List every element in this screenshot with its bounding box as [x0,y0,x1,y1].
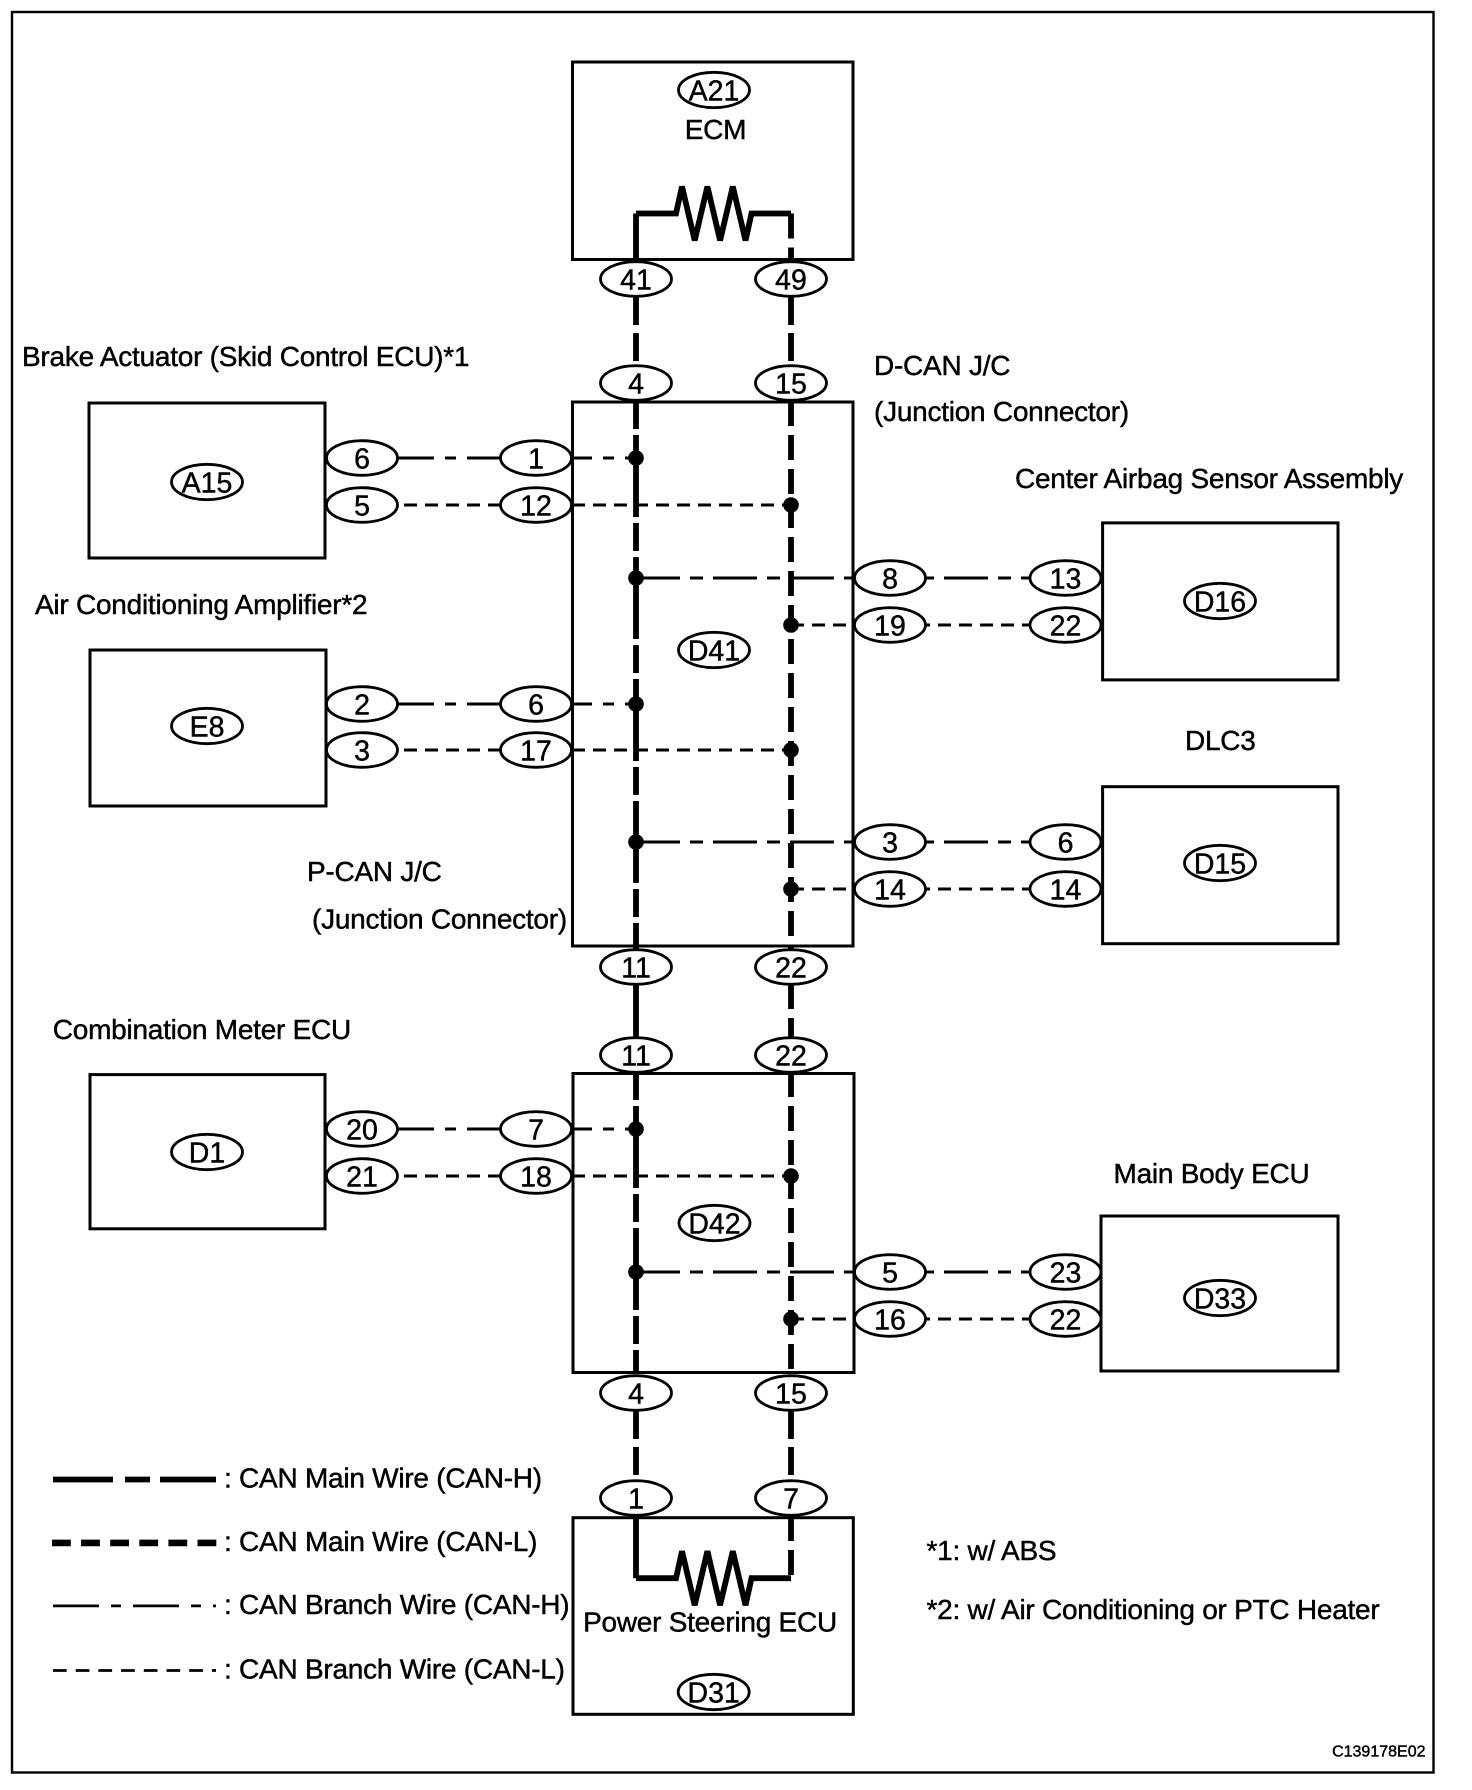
svg-text:1: 1 [528,444,544,476]
svg-text:A15: A15 [182,468,233,500]
svg-text:*2: w/ Air Conditioning or PTC: *2: w/ Air Conditioning or PTC Heater [927,1594,1380,1625]
svg-text:14: 14 [1050,875,1082,907]
svg-text:D42: D42 [688,1209,740,1241]
svg-text:16: 16 [874,1305,906,1337]
svg-text:18: 18 [520,1162,552,1194]
svg-text:23: 23 [1050,1258,1082,1290]
svg-text:12: 12 [520,491,552,523]
svg-text:4: 4 [628,1379,644,1411]
svg-text:Air Conditioning Amplifier*2: Air Conditioning Amplifier*2 [35,589,367,620]
svg-text:15: 15 [775,1379,807,1411]
svg-text:7: 7 [528,1115,544,1147]
svg-text:6: 6 [354,444,370,476]
svg-text:D1: D1 [189,1138,225,1170]
svg-text:22: 22 [1050,1305,1082,1337]
svg-text:: CAN Branch Wire (CAN-L): : CAN Branch Wire (CAN-L) [224,1654,565,1685]
svg-text:14: 14 [874,875,906,907]
svg-text:11: 11 [621,953,651,985]
svg-text:4: 4 [628,369,644,401]
svg-text:: CAN Branch Wire (CAN-H): : CAN Branch Wire (CAN-H) [224,1589,569,1620]
svg-text:Center Airbag Sensor Assembly: Center Airbag Sensor Assembly [1015,463,1403,494]
svg-text:A21: A21 [689,76,740,108]
svg-text:7: 7 [783,1484,799,1516]
svg-text:(Junction Connector): (Junction Connector) [874,396,1129,427]
svg-text:D41: D41 [688,636,740,668]
svg-text:2: 2 [354,690,370,722]
svg-text:E8: E8 [190,712,225,744]
svg-text:: CAN Main Wire (CAN-L): : CAN Main Wire (CAN-L) [224,1526,537,1557]
svg-text:Combination Meter ECU: Combination Meter ECU [53,1014,351,1045]
svg-text:22: 22 [1050,611,1082,643]
svg-text:5: 5 [882,1258,898,1290]
svg-text:22: 22 [775,1041,807,1073]
svg-text:D-CAN J/C: D-CAN J/C [874,350,1010,381]
svg-text:Power Steering ECU: Power Steering ECU [583,1607,837,1638]
svg-text:8: 8 [882,564,898,596]
svg-text:1: 1 [628,1484,644,1516]
svg-text:11: 11 [621,1041,651,1073]
svg-text:3: 3 [882,828,898,860]
svg-text:D15: D15 [1194,849,1246,881]
svg-text:22: 22 [775,953,807,985]
svg-text:Main Body ECU: Main Body ECU [1114,1158,1310,1189]
svg-text:Brake Actuator (Skid Control E: Brake Actuator (Skid Control ECU)*1 [22,341,469,372]
svg-text:49: 49 [775,265,807,297]
svg-text:21: 21 [346,1162,378,1194]
svg-text:41: 41 [620,265,652,297]
svg-text:D16: D16 [1194,587,1246,619]
svg-text:6: 6 [528,690,544,722]
svg-text:: CAN Main Wire (CAN-H): : CAN Main Wire (CAN-H) [224,1463,542,1494]
svg-text:3: 3 [354,736,370,768]
svg-text:(Junction Connector): (Junction Connector) [312,904,567,935]
svg-text:13: 13 [1050,564,1082,596]
svg-text:15: 15 [775,369,807,401]
svg-text:5: 5 [354,491,370,523]
svg-text:DLC3: DLC3 [1185,725,1256,756]
svg-text:D31: D31 [688,1678,740,1710]
svg-text:C139178E02: C139178E02 [1332,1744,1426,1761]
svg-text:P-CAN J/C: P-CAN J/C [307,856,442,887]
svg-text:17: 17 [520,736,552,768]
svg-text:*1: w/ ABS: *1: w/ ABS [927,1535,1057,1566]
svg-text:19: 19 [874,611,906,643]
svg-text:20: 20 [346,1115,378,1147]
svg-text:D33: D33 [1194,1284,1246,1316]
svg-text:6: 6 [1058,828,1074,860]
svg-text:ECM: ECM [685,114,746,145]
